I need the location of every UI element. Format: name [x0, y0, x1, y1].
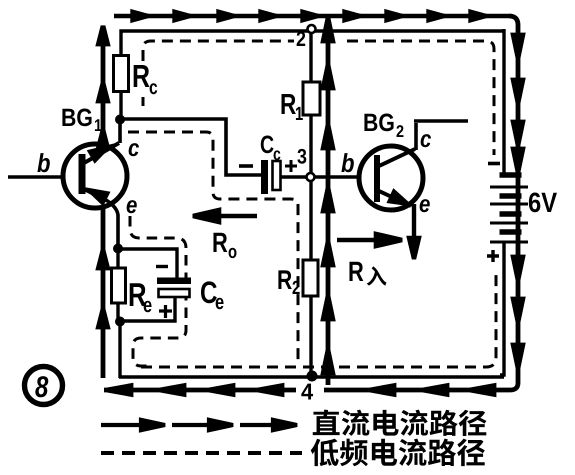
dashed low-frequency path: top edge right part down to battery minus	[347, 41, 494, 155]
wire: top supply rail from Rc to battery corner	[121, 31, 503, 57]
dashed low-frequency path: BG1 collector to Cc and down left of R2	[128, 132, 298, 362]
capacitor Cc: right plate (electrolytic outline)	[273, 161, 281, 190]
wire: DC path arrow line, left side (solid, up arrows)	[98, 26, 107, 378]
transistor BG2 collector stroke	[379, 149, 415, 166]
transistor BG2 base bar	[374, 155, 380, 202]
node 2 (open circle)	[308, 25, 316, 33]
dashed low-frequency path: stub right of Rc below label	[142, 97, 145, 112]
wire: Re bottom lead to lower node	[116, 302, 119, 322]
wire: DC path arrow line, top side (solid, right arrows)	[114, 12, 509, 20]
label node 3	[297, 149, 306, 164]
label R-in subscript (Chinese ru)	[367, 266, 387, 285]
legend: dashed low-frequency current path sample line	[101, 451, 302, 455]
capacitor Ce: top plate	[157, 278, 191, 285]
label 6V	[529, 192, 557, 212]
transistor BG2 (circle)	[359, 146, 423, 210]
plus sign at Cc right plate	[285, 160, 297, 172]
dashed low-frequency path: top edge left part	[143, 41, 294, 61]
battery plus sign	[487, 250, 499, 262]
label e of BG2	[420, 199, 430, 212]
dashed low-frequency path: BG1 emitter through Ce to bottom	[130, 216, 186, 366]
label BG1	[62, 109, 91, 127]
label Ro	[213, 233, 227, 252]
label e of BG1	[127, 200, 137, 213]
label Re	[130, 283, 146, 306]
capacitor Cc: left plate	[261, 160, 268, 194]
label node 2	[297, 31, 306, 46]
battery minus sign	[488, 162, 500, 166]
transistor BG1 base bar	[79, 154, 86, 194]
transistor BG1 collector stroke with current arrow	[84, 143, 119, 163]
wire: bottom rail from Re branch to battery	[119, 375, 504, 378]
plus sign below Ce	[159, 305, 172, 318]
wire: lower node down to bottom rail	[118, 321, 121, 378]
wire: Ce bottom plate to lower node	[119, 296, 175, 321]
wire: collector node across to Cc left plate	[119, 119, 261, 175]
resistor R1	[303, 82, 320, 115]
resistor Re	[112, 268, 126, 303]
wire: battery top lead, right side	[502, 29, 505, 175]
wire: R2 bottom to node 4	[309, 296, 312, 376]
wire: Re top lead	[116, 248, 119, 269]
wire: Cc right plate to node 3	[281, 175, 307, 178]
junction dot: collector node of BG1	[115, 115, 125, 125]
wire: battery bottom lead down to bottom rail	[500, 243, 504, 375]
wire: Rc bottom to collector node	[119, 91, 122, 120]
wire: DC path arrow line, right side (solid, down arrows)	[509, 16, 523, 390]
arrow for R-in (input resistance, pointing right)	[337, 234, 402, 246]
battery 6V plates	[490, 175, 528, 242]
label BG2	[364, 114, 393, 132]
label b of BG1	[37, 153, 49, 172]
wire: BG2 collector up and right stub	[414, 121, 468, 150]
wire: R1 bottom to node 3	[309, 115, 312, 173]
junction dot: below Re	[115, 317, 125, 327]
label b of BG2	[341, 153, 353, 172]
resistor R2	[303, 260, 318, 296]
capacitor Ce: bottom plate (electrolytic outline)	[159, 289, 190, 297]
wire: input lead to BG1 base	[8, 175, 62, 178]
label c of BG1	[129, 143, 139, 156]
label R-in	[349, 262, 363, 281]
wire: node 3 down to R2	[309, 181, 312, 261]
wire: BG2 emitter lead with down arrow	[409, 204, 419, 259]
wire: BG1 collector up to node	[118, 119, 122, 143]
transistor BG1 (circle)	[63, 144, 127, 208]
minus sign above Ce	[156, 265, 168, 268]
wire: Re node to Ce top plate	[117, 249, 177, 279]
transistor BG2 emitter stroke with arrow	[379, 191, 411, 206]
wire: DC path arrow line along R1-R2 branch (solid, up arrows)	[323, 15, 333, 385]
wire: DC path arrow line, bottom side (solid, left arrows)	[104, 386, 510, 395]
label R1	[282, 94, 296, 114]
dashed low-frequency path: bottom edge and up to battery plus	[141, 272, 496, 367]
node 4 (junction dot)	[307, 371, 318, 382]
legend text: low-frequency current path (Chinese)	[311, 439, 485, 467]
label node 4	[301, 384, 313, 400]
label c of BG2	[421, 134, 431, 147]
label Cc	[261, 136, 274, 154]
label Rc	[134, 65, 150, 87]
legend text: DC current path (Chinese)	[313, 410, 487, 436]
label R2	[278, 270, 291, 289]
wire: node 2 down to R1	[309, 31, 312, 83]
wire: BG1 emitter down to Re node	[106, 200, 118, 249]
label Ce	[201, 281, 217, 303]
dashed low-frequency path: short run below Re node	[119, 331, 122, 360]
figure number 8 in circle	[25, 367, 63, 405]
minus sign at Cc left plate	[239, 164, 253, 168]
junction dot: emitter node of BG1	[113, 244, 123, 254]
legend: solid DC current path sample line	[101, 420, 297, 430]
transistor BG1 emitter stroke with current arrow	[84, 189, 108, 203]
resistor Rc	[114, 56, 129, 92]
node 3 (open circle)	[307, 173, 315, 181]
arrow for Ro (output resistance, pointing left)	[193, 210, 257, 222]
wire: node 3 to BG2 base	[315, 175, 360, 178]
